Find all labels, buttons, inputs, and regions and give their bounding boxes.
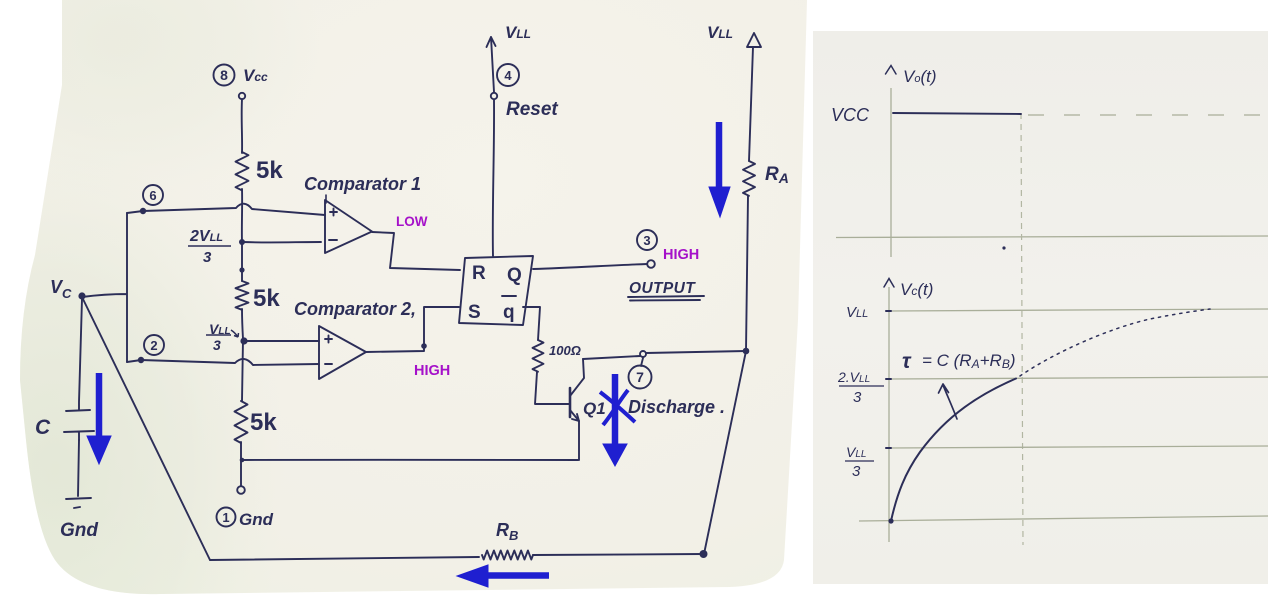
pin 6 wire to comparator1 +: [127, 204, 325, 215]
pin 6 label: [143, 185, 163, 205]
svg-text:Gnd: Gnd: [60, 520, 98, 541]
svg-text:Comparator 2,: Comparator 2,: [294, 299, 416, 319]
svg-text:Gnd: Gnd: [239, 510, 274, 529]
svg-text:100Ω: 100Ω: [549, 343, 581, 358]
right graph: [836, 88, 1268, 545]
svg-text:HIGH: HIGH: [663, 247, 699, 263]
svg-text:C: C: [35, 416, 51, 439]
svg-text:VCC: VCC: [831, 105, 870, 125]
top t axis: [836, 236, 1268, 238]
ground wire to transistor emitter: [242, 459, 578, 461]
vertical dashed line t=T: [1021, 113, 1023, 545]
node 2VLL/3: [239, 239, 245, 273]
2VLL/3 level line: [890, 377, 1268, 379]
pin 2 node: [138, 357, 144, 363]
wire Q-bar to 100 ohm: [523, 307, 540, 340]
graph Vc axis line: [888, 287, 890, 542]
OUTPUT underline: [628, 296, 704, 301]
pin 4 label circle: [497, 64, 519, 86]
charging curve solid: [891, 379, 1016, 522]
svg-text:3: 3: [213, 337, 221, 353]
svg-text:= C (RA+RB): = C (RA+RB): [922, 351, 1016, 371]
pin 2 wire to comparator2 -: [127, 359, 319, 365]
pin 8 VCC terminal: [214, 65, 246, 100]
comparator1 - input wire: [242, 241, 321, 243]
wire capacitor to ground: [78, 440, 79, 496]
svg-text:q: q: [503, 302, 515, 323]
junction dot RA pin7: [743, 348, 750, 355]
svg-text:3: 3: [203, 249, 212, 266]
Q-bar overline: [502, 295, 516, 297]
svg-text:Comparator 1: Comparator 1: [304, 174, 421, 194]
axis tick 2VLL/3: [886, 378, 891, 380]
svg-text:1: 1: [222, 510, 229, 525]
svg-text:τ: τ: [902, 350, 912, 373]
wire VLL to RA: [749, 47, 753, 161]
blue arrow RB current: [457, 565, 549, 587]
diagonal wire Vc to bottom: [82, 297, 210, 560]
resistor R2 5k middle: [236, 281, 249, 310]
VLL/3 level line: [890, 446, 1268, 448]
wire: [242, 339, 243, 401]
wire pin7 to RA junction: [646, 351, 746, 353]
dot on top axis: [1002, 246, 1005, 249]
wire comparator1 output to R input: [372, 232, 460, 270]
wire: [241, 189, 243, 242]
right photo background: [813, 31, 1268, 584]
wire collector to pin7 terminal: [583, 356, 640, 359]
svg-text:2: 2: [150, 338, 157, 353]
capacitor C: [64, 410, 94, 440]
origin dot: [888, 518, 893, 523]
axis tick VLL/3: [886, 447, 891, 449]
svg-text:4: 4: [504, 68, 512, 83]
junction dot comparator2 output: [421, 343, 427, 349]
resistor R1 5k top: [236, 152, 249, 190]
left paper background: [20, 0, 807, 594]
blue arrow discharge: [603, 374, 627, 466]
svg-text:Q1: Q1: [583, 399, 606, 418]
transistor Q1: [570, 359, 584, 460]
VLL arrowhead RA top: [747, 33, 761, 47]
label 2VLL/3 graph: [837, 369, 884, 406]
svg-text:S: S: [468, 302, 481, 323]
wire RA to junction: [746, 196, 748, 351]
pin 3 output wire: [533, 264, 647, 269]
wire junction down to bottom junction: [704, 351, 746, 554]
wire Vc to capacitor: [79, 299, 82, 410]
svg-text:Reset: Reset: [506, 99, 558, 120]
junction gnd wire: [240, 458, 245, 463]
pin 4 terminal: [491, 93, 497, 99]
wire: [241, 242, 243, 281]
wire 100 ohm to base: [535, 372, 570, 404]
svg-text:Vc(t): Vc(t): [900, 280, 933, 299]
blue annotations: [87, 122, 730, 587]
node Vc: [78, 292, 85, 299]
svg-text:5k: 5k: [250, 409, 277, 436]
svg-text:OUTPUT: OUTPUT: [629, 280, 696, 297]
svg-text:HIGH: HIGH: [414, 363, 450, 379]
pin 7 label circle: [641, 358, 643, 366]
resistor R3 5k bottom: [235, 401, 248, 443]
svg-text:5k: 5k: [253, 285, 280, 312]
pin 1 Gnd terminal: [217, 486, 245, 526]
bottom t axis: [859, 516, 1268, 521]
bottom junction dot: [700, 550, 708, 558]
comparator2 + input wire: [244, 340, 319, 342]
pin 2 label: [144, 335, 164, 355]
label VLL/3: [206, 321, 239, 353]
Vc axis arrowhead: [884, 279, 894, 288]
graph Vo axis line: [890, 88, 892, 257]
blue arrow RA current: [709, 122, 730, 217]
VCC dashed continuation: [1028, 114, 1262, 116]
axis tick VLL: [886, 310, 891, 312]
label VLL/3 graph: [845, 444, 874, 480]
svg-text:3: 3: [643, 233, 650, 248]
SR latch U3 box: [459, 256, 533, 325]
svg-text:3: 3: [852, 463, 861, 480]
svg-text:Discharge .: Discharge .: [628, 397, 725, 417]
bottom wire left of RB: [210, 557, 479, 560]
blue X discharge: [600, 390, 635, 425]
svg-text:Q: Q: [507, 265, 522, 286]
tau arrow: [939, 384, 958, 419]
svg-text:R: R: [472, 263, 486, 284]
svg-text:Vo(t): Vo(t): [903, 67, 937, 86]
wire to gnd pin: [240, 442, 242, 486]
VLL arrow top reset: [487, 37, 496, 92]
pin 4 reset wire: [493, 100, 494, 256]
pin 3 label circle: [637, 230, 657, 250]
bottom wire right of RB: [533, 554, 704, 555]
wire comparator2 output to S input: [366, 307, 459, 352]
comparator 2 op-amp: [319, 326, 366, 379]
pin 7 terminal: [640, 351, 646, 357]
wire: [242, 309, 243, 339]
ground symbol: [66, 498, 91, 508]
VLL level line: [890, 309, 1268, 311]
svg-text:6: 6: [149, 188, 156, 203]
svg-text:8: 8: [220, 67, 228, 83]
label 2VLL/3: [188, 228, 231, 266]
comparator 1 op-amp: [325, 195, 372, 253]
wire Vc rail: [82, 213, 127, 362]
wire VCC to divider: [241, 99, 243, 153]
schematic text labels: [35, 23, 789, 543]
pin 3 terminal: [647, 260, 655, 268]
svg-text:5k: 5k: [256, 157, 283, 184]
Vo VCC level line: [893, 113, 1021, 114]
node VLL/3: [240, 337, 247, 344]
blue arrow capacitor current: [87, 373, 111, 464]
Vo axis arrowhead: [886, 66, 897, 75]
svg-text:LOW: LOW: [396, 214, 428, 229]
charging curve dotted: [1020, 309, 1210, 376]
svg-text:7: 7: [636, 369, 644, 385]
resistor 100 ohm: [533, 340, 544, 372]
svg-text:3: 3: [853, 389, 862, 406]
resistor RA: [743, 161, 755, 196]
resistor RB: [482, 551, 533, 560]
pin 6 node: [140, 208, 146, 214]
